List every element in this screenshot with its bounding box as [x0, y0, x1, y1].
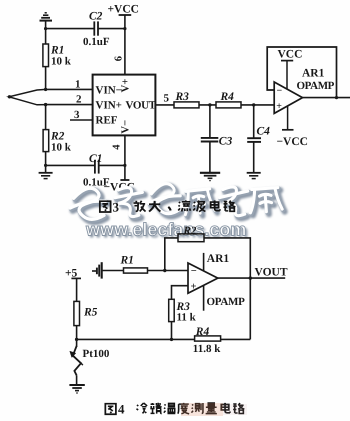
op-amp U1 (instrumentation amplifier block) [93, 75, 157, 136]
wire C1 to pin4 column [99, 164, 125, 166]
svg-text:Pt100: Pt100 [83, 348, 110, 360]
svg-text:www.elecfans.com: www.elecfans.com [85, 220, 246, 240]
ground (C4) [247, 173, 261, 179]
capacitor C1 [83, 153, 110, 189]
VCC supply (upper op-amp) [278, 49, 303, 90]
svg-text:−: − [191, 266, 197, 277]
svg-text:R2: R2 [183, 225, 197, 237]
op-amp AR1 triangle (upper) [274, 82, 302, 113]
svg-text:VIN−: VIN− [96, 85, 122, 97]
wire bottom rail to C1 [46, 164, 95, 166]
feedback wire up and across [165, 238, 178, 271]
svg-text:11 k: 11 k [177, 312, 197, 324]
svg-text:4: 4 [118, 402, 125, 417]
svg-text:V+: V+ [119, 79, 131, 93]
wire top rail to C2 [46, 28, 94, 30]
wire pin 1 [46, 88, 93, 90]
wire pin 2 [46, 104, 93, 106]
wire ground to R1 [45, 21, 47, 44]
thermocouple probe [9, 89, 46, 104]
svg-text:REF: REF [96, 115, 118, 127]
svg-text:11.8 k: 11.8 k [193, 343, 221, 355]
+VCC supply (top) [108, 4, 139, 16]
svg-text:2: 2 [76, 94, 82, 106]
svg-text:R4: R4 [220, 91, 235, 103]
svg-text:+: + [191, 282, 197, 293]
+5 supply terminal [65, 268, 81, 280]
svg-text:R4: R4 [195, 326, 210, 338]
node C (C3 tap) [208, 103, 211, 106]
output wire to VOUT [218, 277, 285, 279]
svg-text:AR1: AR1 [302, 68, 325, 80]
svg-text:−: − [277, 85, 283, 96]
svg-text:C2: C2 [89, 11, 103, 23]
resistor R1 (lower) [120, 255, 148, 274]
resistor R5 [74, 301, 98, 325]
svg-text:V−: V− [119, 120, 131, 134]
-VCC supply (bottom) [104, 180, 135, 194]
svg-text:C4: C4 [257, 126, 271, 138]
resistor R3 (lower) [169, 299, 197, 323]
wire Pt100 to ground [76, 375, 78, 384]
svg-text:3: 3 [74, 109, 80, 121]
wire R3 to bottom rail [171, 322, 173, 340]
svg-text:R1: R1 [120, 255, 134, 267]
op-amp AR1 (upper) feedback loop wire [303, 97, 350, 99]
Pt100 RTD [70, 346, 110, 375]
svg-text:1: 1 [75, 79, 81, 91]
wire R2 to bottom node [45, 152, 47, 173]
wire R1 to inverting input [148, 270, 189, 272]
wire R5 to bottom node [76, 326, 78, 347]
svg-text:10 k: 10 k [51, 142, 72, 154]
svg-text:R5: R5 [83, 307, 98, 319]
resistor R4 [216, 91, 241, 108]
wire pin 4 down to -VCC [124, 135, 126, 180]
svg-text:C1: C1 [89, 153, 102, 165]
ground (below R2) [39, 173, 53, 179]
svg-text:AR1: AR1 [207, 253, 230, 265]
ground (Pt100) [69, 385, 84, 393]
svg-text:10 k: 10 k [51, 56, 72, 68]
svg-text:6: 6 [114, 56, 125, 61]
wire pin 3 (REF stub) [70, 119, 93, 121]
svg-text:VIN+: VIN+ [96, 100, 122, 112]
wire R1 to node A [45, 67, 47, 90]
node D (C4 tap) [252, 103, 255, 106]
node A (junction R1 / thermocouple / pin1) [44, 88, 47, 91]
+ input wire [172, 286, 189, 300]
svg-text:+VCC: +VCC [108, 4, 139, 16]
svg-text:C3: C3 [219, 136, 233, 148]
capacitor C2 [83, 11, 110, 49]
wire +VCC down to pin 6 [124, 15, 126, 75]
wire C2 to +VCC node [98, 28, 125, 30]
node: rail junction [44, 27, 47, 30]
wire battery to R1 [102, 270, 124, 272]
svg-text:+: + [276, 101, 282, 112]
svg-text:VOUT: VOUT [126, 100, 157, 112]
svg-text:VOUT: VOUT [255, 267, 288, 279]
svg-text:R3: R3 [175, 91, 190, 103]
svg-text:OPAMP: OPAMP [207, 296, 246, 308]
node E (feedback tap) [163, 269, 166, 272]
AR1 pin lines (lower) [203, 253, 205, 311]
ground (top-left, earth symbol pointing up) [40, 13, 53, 21]
resistor R4 (lower) [193, 326, 221, 355]
svg-text:−VCC: −VCC [277, 136, 308, 148]
svg-text:3: 3 [113, 200, 120, 215]
wire pin 5 output [155, 104, 174, 106]
wire C4 to ground [253, 142, 255, 173]
wire +5 to R5 [76, 278, 78, 301]
resistor R1 [43, 44, 72, 68]
feedback wire to right column [204, 238, 250, 340]
faint red watermark remnant over caption [181, 403, 223, 416]
node B (junction thermocouple / R2 / pin2) [44, 103, 47, 106]
svg-text:VCC: VCC [278, 49, 303, 61]
resistor R2 (feedback) [178, 225, 204, 242]
capacitor C4 [247, 105, 270, 142]
svg-text:OPAMP: OPAMP [297, 80, 335, 92]
wire C3 to ground [209, 142, 211, 173]
resistor R3 [174, 91, 199, 108]
wire R4 to op-amp [241, 104, 274, 106]
op-amp AR1 triangle (lower) [188, 263, 218, 293]
wire R3 to R4 [199, 104, 216, 106]
bottom rail wire [77, 338, 195, 340]
ground (C3) [200, 173, 220, 181]
battery cell (cold junction reference) [92, 262, 102, 278]
svg-text:4: 4 [112, 144, 123, 150]
watermark url text [85, 220, 248, 242]
svg-text:5: 5 [164, 93, 170, 105]
-VCC supply (upper op-amp) [277, 106, 308, 148]
wire R4 to right column [221, 338, 251, 340]
resistor R2 [43, 130, 72, 154]
svg-text:0.1uF: 0.1uF [83, 36, 110, 48]
capacitor C3 [201, 105, 233, 148]
wire node B to R2 [45, 105, 47, 130]
